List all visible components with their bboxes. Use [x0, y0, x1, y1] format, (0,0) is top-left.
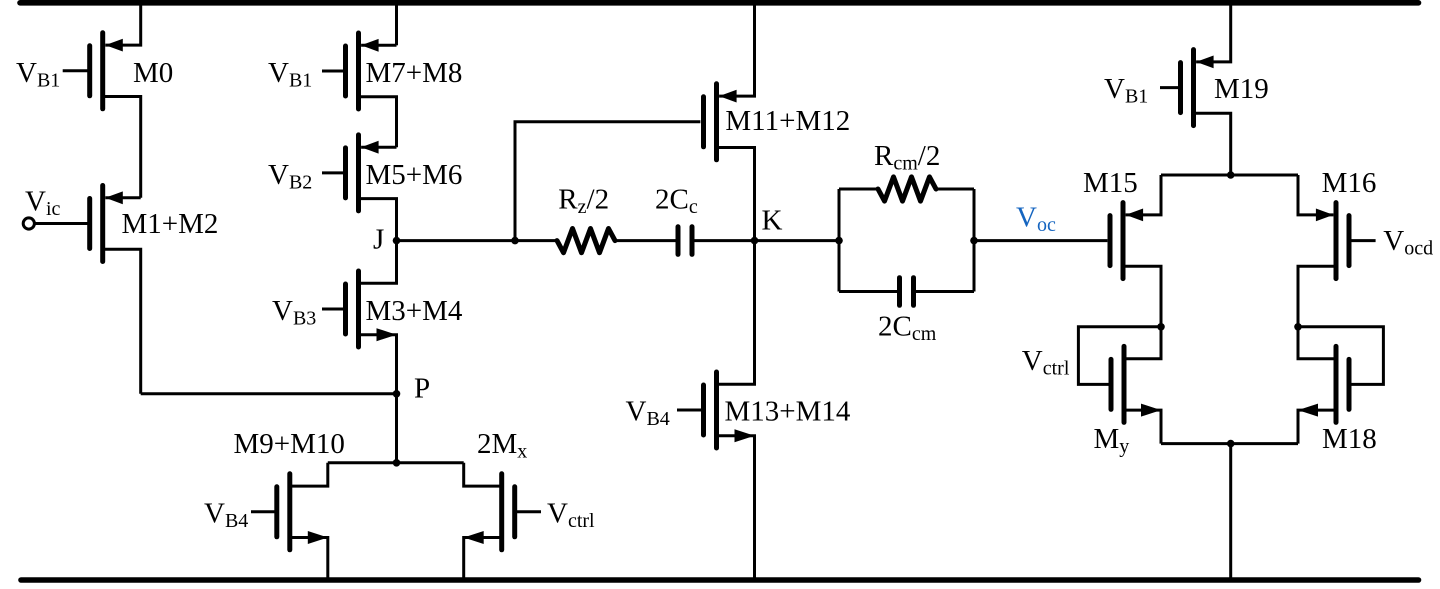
M1+M2 source arrow: [105, 191, 123, 204]
wire node Voc to M15 gate: [974, 239, 1107, 242]
transistor M9+M10 (NMOS): [277, 474, 290, 550]
wire M18 source down: [1298, 410, 1336, 444]
wire M0 source to VDD: [105, 0, 140, 45]
M18 source arrow: [1298, 404, 1318, 417]
wire M7+M8 gate: [322, 70, 346, 73]
label M19: [1214, 73, 1269, 105]
label VB1 at M0: [16, 57, 60, 92]
junction dot tail: [1227, 440, 1235, 448]
wire capacitor to node K: [695, 239, 840, 242]
svg-text:M1+M2: M1+M2: [122, 208, 219, 240]
label 2Ccm: [878, 311, 937, 346]
label M3+M4: [366, 295, 463, 327]
My source arrow: [1141, 404, 1161, 417]
label M18: [1322, 423, 1377, 455]
wire M5+M6 gate: [322, 171, 346, 174]
M0 source arrow: [105, 39, 123, 52]
label Rcm/2: [874, 140, 940, 175]
transistor M16 (PMOS, mirrored): [1336, 203, 1349, 279]
svg-text:My: My: [1094, 423, 1130, 458]
svg-text:2Mx: 2Mx: [477, 428, 527, 463]
svg-text:Vctrl: Vctrl: [547, 498, 595, 533]
wire M16 source up: [1298, 175, 1333, 215]
transistor M1+M2 (PMOS): [90, 186, 103, 262]
label Vctrl at My: [1022, 345, 1070, 380]
wire M0 gate: [63, 69, 90, 72]
label VB1 at M19: [1104, 73, 1148, 108]
label Voc: [1016, 202, 1056, 237]
label M13+M14: [725, 396, 851, 428]
svg-text:M13+M14: M13+M14: [725, 396, 851, 428]
transistor M13+M14 (NMOS): [704, 372, 717, 448]
wire M13+M14 gate: [677, 409, 704, 412]
mid rail M15-M16 sources: [1161, 174, 1298, 177]
svg-text:M7+M8: M7+M8: [366, 57, 463, 89]
label 2Cc: [655, 184, 698, 219]
wire M7+M8 drain to M5+M6 source: [359, 97, 397, 148]
label M7+M8: [366, 57, 463, 89]
svg-text:Rz/2: Rz/2: [558, 184, 609, 219]
transistor M0 (PMOS): [90, 33, 103, 109]
capacitor 2Cc: [678, 227, 692, 255]
label VB3: [272, 295, 316, 330]
svg-text:M18: M18: [1322, 423, 1377, 455]
wire M0 drain to M1+M2 source: [103, 97, 141, 198]
label Rz/2: [558, 184, 609, 219]
tail pair top rail: [328, 461, 464, 464]
svg-text:VB1: VB1: [1104, 73, 1148, 108]
M5+M6 source arrow: [361, 141, 379, 154]
svg-text:VB4: VB4: [626, 396, 670, 431]
label VB2: [268, 159, 312, 194]
label Vctrl at 2Mx: [547, 498, 595, 533]
wire tail to VSS: [1229, 444, 1232, 580]
M13+M14 source arrow: [735, 429, 755, 442]
RC network left vertical: [838, 189, 841, 292]
wire node P down to tail pair: [395, 394, 398, 463]
transistor M15 (PMOS): [1110, 203, 1123, 279]
svg-text:Vic: Vic: [25, 186, 61, 221]
svg-text:M11+M12: M11+M12: [725, 105, 850, 137]
junction dot M18 drain-gate: [1294, 323, 1302, 331]
label M5+M6: [366, 159, 463, 191]
wire M19 gate: [1160, 86, 1181, 89]
wire capacitor 2Ccm to right: [916, 290, 974, 293]
svg-text:VB3: VB3: [272, 295, 316, 330]
node right of RC dot: [970, 237, 978, 245]
wire M16 drain down: [1298, 266, 1336, 327]
wire M3+M4 source to node P: [359, 335, 397, 394]
resistor Rcm/2: [878, 177, 936, 201]
wire M9+M10 source to VSS: [290, 538, 328, 581]
wire M15 drain down: [1123, 266, 1161, 327]
svg-text:M16: M16: [1322, 167, 1377, 199]
wire M7+M8 source: [361, 44, 396, 47]
wire M9+M10 gate: [251, 510, 277, 513]
junction dot at gate riser: [511, 237, 519, 245]
svg-text:P: P: [414, 373, 430, 405]
label Vocd: [1383, 225, 1433, 260]
node left of RC dot: [835, 237, 843, 245]
label VB4 at M9+M10: [204, 498, 248, 533]
junction dot My drain-gate: [1157, 323, 1165, 331]
resistor Rz/2: [557, 229, 615, 253]
transistor My (NMOS): [1111, 346, 1124, 422]
svg-text:M19: M19: [1214, 73, 1269, 105]
svg-text:K: K: [762, 204, 783, 236]
wire M5+M6 drain to node J: [359, 199, 397, 241]
wire My drain up: [1124, 327, 1161, 359]
node J dot: [393, 237, 401, 245]
M15 source arrow: [1126, 209, 1144, 222]
RC network right vertical: [973, 189, 976, 292]
svg-text:Vocd: Vocd: [1383, 225, 1433, 260]
label M16: [1322, 167, 1377, 199]
junction dot above tail pair: [393, 459, 401, 467]
label J: [373, 224, 384, 256]
wire M18 drain up: [1298, 327, 1336, 359]
label M11+M12: [725, 105, 850, 137]
node K dot: [751, 237, 759, 245]
wire M13+M14 drain to node K: [717, 241, 755, 385]
label P: [414, 373, 430, 405]
M7+M8 source arrow: [361, 39, 379, 52]
label M9+M10: [234, 428, 345, 460]
label M0: [133, 57, 173, 89]
capacitor 2Ccm: [900, 278, 914, 306]
wire M13+M14 source to VSS: [717, 436, 755, 580]
wire VDD to M7+M8 source: [395, 0, 398, 45]
M19 source arrow: [1196, 56, 1214, 69]
wire M1+M2 drain down: [103, 249, 141, 394]
label VB4 at M13+M14: [626, 396, 670, 431]
label M15: [1083, 167, 1138, 199]
label Vic: [25, 186, 61, 221]
wire M3+M4 gate: [322, 308, 346, 311]
svg-text:VB2: VB2: [268, 159, 312, 194]
wire 2Mx source to VSS: [464, 538, 502, 581]
input terminal Vic circle: [23, 218, 34, 229]
wire M19 drain down: [1194, 113, 1231, 175]
wire M11+M12 source to VDD: [719, 0, 754, 96]
transistor 2Mx (NMOS, mirrored): [502, 474, 515, 550]
wire to capacitor 2Ccm: [839, 290, 899, 293]
svg-text:Vctrl: Vctrl: [1022, 345, 1070, 380]
svg-text:VB1: VB1: [16, 57, 60, 92]
wire M16 gate stub: [1349, 239, 1376, 242]
wire M1+M2 source: [105, 196, 140, 199]
wire 2Mx drain: [464, 463, 502, 486]
VSS bottom supply rail: [21, 577, 1419, 583]
svg-text:M15: M15: [1083, 167, 1138, 199]
wire M19 source to VDD: [1196, 0, 1231, 62]
wire M5+M6 source: [361, 146, 396, 149]
svg-text:M3+M4: M3+M4: [366, 295, 463, 327]
label K: [762, 204, 783, 236]
wire My source down: [1124, 410, 1161, 444]
wire M9+M10 drain: [290, 463, 328, 486]
svg-text:2Ccm: 2Ccm: [878, 311, 937, 346]
VDD top supply rail: [20, 0, 1419, 6]
svg-text:VB1: VB1: [268, 57, 312, 92]
svg-text:VB4: VB4: [204, 498, 248, 533]
wire My gate loop: [1078, 327, 1161, 385]
transistor M18 (NMOS, mirrored): [1336, 346, 1349, 422]
label 2Mx: [477, 428, 527, 463]
svg-text:M5+M6: M5+M6: [366, 159, 463, 191]
output pair tail rail: [1161, 442, 1298, 445]
wire 2Mx gate: [515, 510, 541, 513]
M11+M12 source arrow: [719, 90, 737, 103]
transistor M19 (PMOS): [1181, 50, 1194, 126]
transistor M5+M6 (PMOS): [346, 135, 359, 211]
junction dot under M19: [1227, 171, 1235, 179]
svg-text:Voc: Voc: [1016, 202, 1056, 237]
label M1+M2: [122, 208, 219, 240]
wire to resistor Rcm/2: [839, 188, 878, 191]
wire riser to M11+M12 gate: [515, 122, 700, 241]
M9+M10 source arrow: [308, 531, 328, 544]
wire resistor to capacitor: [615, 239, 676, 242]
svg-text:Rcm/2: Rcm/2: [874, 140, 940, 175]
svg-text:J: J: [373, 224, 384, 256]
wire M15 source up: [1126, 175, 1161, 215]
wire to node P horizontal: [141, 392, 397, 395]
2Mx source arrow: [464, 531, 484, 544]
transistor M7+M8 (PMOS): [346, 33, 359, 109]
svg-text:2Cc: 2Cc: [655, 184, 698, 219]
svg-text:M9+M10: M9+M10: [234, 428, 345, 460]
wire M3+M4 drain to node J: [359, 241, 397, 284]
wire node J to resistor: [397, 239, 558, 242]
M16 source arrow: [1316, 209, 1334, 222]
node P dot: [393, 390, 401, 398]
wire resistor Rcm/2 to right: [936, 188, 974, 191]
label VB1 at M7+M8: [268, 57, 312, 92]
transistor M11+M12 (PMOS): [704, 84, 717, 160]
wire M18 gate loop: [1298, 327, 1383, 385]
svg-text:M0: M0: [133, 57, 173, 89]
wire Vic to M1+M2 gate: [34, 222, 89, 225]
label My: [1094, 423, 1130, 458]
wire M11+M12 drain to node K: [717, 148, 755, 241]
transistor M3+M4 (NMOS): [346, 271, 359, 347]
M3+M4 source arrow: [377, 328, 397, 341]
